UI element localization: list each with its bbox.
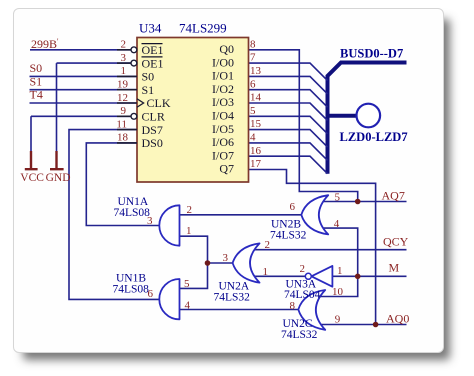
svg-text:I/O0: I/O0	[212, 55, 234, 69]
svg-text:2: 2	[187, 204, 193, 216]
svg-text:8: 8	[250, 38, 256, 50]
or gate UN2C	[298, 290, 325, 330]
svg-text:6: 6	[250, 78, 256, 90]
svg-text:T4: T4	[30, 88, 43, 102]
junction dot UN2A output	[205, 260, 211, 266]
svg-text:15: 15	[250, 118, 262, 130]
svg-text:299B': 299B'	[31, 37, 59, 51]
svg-text:LZD0-LZD7: LZD0-LZD7	[340, 130, 408, 144]
svg-text:I/O7: I/O7	[212, 148, 234, 162]
svg-text:AQ7: AQ7	[382, 188, 405, 202]
junction dot AQ7	[355, 199, 361, 205]
power symbol GND	[50, 151, 64, 169]
wire pin 16 bus entry	[249, 156, 328, 174]
wire pin 4 bus entry	[249, 143, 328, 161]
wire pin 7 bus entry	[249, 63, 328, 81]
svg-text:6: 6	[148, 288, 154, 300]
svg-text:19: 19	[117, 79, 129, 91]
svg-text:S1: S1	[30, 74, 43, 88]
svg-text:4: 4	[250, 132, 256, 144]
svg-text:UN1A: UN1A	[118, 196, 149, 208]
svg-text:AQ0: AQ0	[386, 311, 409, 325]
wire pin 5 bus entry	[249, 116, 328, 134]
svg-text:6: 6	[290, 201, 296, 213]
svg-text:I/O5: I/O5	[212, 122, 234, 136]
junction dot M	[355, 274, 361, 280]
svg-text:S1: S1	[142, 83, 155, 97]
wire Q7 pin 17 to AQ0 junction	[249, 170, 376, 325]
svg-text:I/O4: I/O4	[212, 109, 234, 123]
svg-text:GND: GND	[46, 172, 71, 184]
svg-text:DS7: DS7	[142, 123, 163, 137]
svg-text:I/O3: I/O3	[212, 95, 234, 109]
or gate UN2B	[301, 195, 328, 234]
svg-text:CLK: CLK	[147, 96, 171, 110]
svg-text:4: 4	[185, 299, 191, 311]
svg-text:S0: S0	[142, 70, 155, 84]
svg-text:2: 2	[121, 39, 127, 51]
svg-text:U34: U34	[139, 21, 162, 36]
wire S0 to pin 1	[30, 75, 138, 77]
wire AQ0 to UN2C.9	[319, 324, 407, 326]
svg-text:2: 2	[265, 239, 271, 251]
junction dot AQ0	[373, 322, 379, 328]
wire T4 to pin 12 CLK	[30, 102, 138, 104]
pin 9 stub and bubble	[117, 115, 131, 117]
svg-text:74LS32: 74LS32	[214, 291, 251, 303]
svg-text:3: 3	[147, 215, 153, 227]
svg-text:UN1B: UN1B	[116, 272, 146, 284]
svg-text:5: 5	[250, 105, 256, 117]
wire M to UN3A.1	[332, 275, 406, 277]
inverter UN3A triangle	[311, 266, 332, 287]
svg-text:74LS32: 74LS32	[281, 329, 318, 341]
pin 2 stub and bubble	[117, 49, 131, 51]
chip U34 74LS299 body	[137, 38, 249, 183]
wire DS0 pin 18 to UN1A output	[86, 143, 159, 226]
svg-text:11: 11	[116, 118, 127, 130]
svg-text:74LS32: 74LS32	[270, 229, 307, 241]
svg-text:3: 3	[121, 52, 127, 64]
and gate UN1B	[159, 279, 179, 319]
wire GND riser to pin 3	[57, 63, 131, 152]
svg-text:QCY: QCY	[383, 234, 409, 248]
svg-text:I/O6: I/O6	[212, 135, 234, 149]
wire AQ7 to UN2B.5	[322, 201, 407, 203]
svg-text:12: 12	[117, 92, 128, 104]
wire 299B' to pin 2	[30, 49, 131, 51]
svg-text:I/O1: I/O1	[212, 69, 234, 83]
pin 12 stub and clock mark	[117, 102, 137, 104]
svg-text:74LS299: 74LS299	[179, 21, 227, 36]
svg-text:I/O2: I/O2	[212, 82, 234, 96]
wire UN1A.2 to UN2B.6	[180, 214, 302, 216]
svg-text:OE1: OE1	[142, 56, 164, 70]
svg-text:17: 17	[250, 158, 262, 170]
wire QCY to UN2A.2	[253, 249, 407, 251]
wire Q0 pin 8 to AQ7 junction	[249, 50, 358, 202]
svg-text:CLR: CLR	[142, 110, 165, 124]
svg-text:S0: S0	[30, 61, 43, 75]
wire DS7 pin 11 to UN1B output	[69, 130, 160, 300]
svg-text:1: 1	[337, 265, 343, 277]
wire pin 15 bus entry	[249, 130, 328, 148]
svg-text:1: 1	[186, 225, 192, 237]
svg-text:OE1: OE1	[142, 43, 164, 57]
wire UN3A.2 to UN2A.1	[253, 275, 305, 277]
svg-text:5: 5	[184, 278, 190, 290]
svg-text:2: 2	[300, 263, 306, 275]
bus branch to LZD circle	[328, 114, 358, 118]
svg-text:Q0: Q0	[219, 42, 234, 56]
svg-text:VCC: VCC	[20, 172, 44, 184]
and gate UN1A	[159, 205, 179, 245]
svg-text:1: 1	[263, 266, 269, 278]
svg-text:9: 9	[121, 105, 127, 117]
pin 1 stub	[117, 75, 137, 77]
wire S1 to pin 19	[30, 89, 138, 91]
svg-text:7: 7	[250, 52, 256, 64]
pin 19 stub	[117, 89, 137, 91]
svg-text:8: 8	[290, 300, 296, 312]
svg-text:18: 18	[117, 132, 129, 144]
svg-text:10: 10	[332, 286, 344, 298]
wire UN2B.4 to M junction and UN2C.10	[319, 228, 358, 296]
svg-text:Q7: Q7	[219, 162, 234, 176]
svg-text:9: 9	[335, 314, 341, 326]
wire pin 6 bus entry	[249, 90, 328, 108]
sheet connector circle LZD0-LZD7	[357, 104, 381, 128]
svg-text:74LS08: 74LS08	[113, 284, 150, 296]
pin 11 stub	[117, 129, 137, 131]
bus BUSD0--D7	[328, 63, 407, 174]
svg-text:DS0: DS0	[142, 136, 163, 150]
svg-text:14: 14	[250, 92, 262, 104]
wire VCC riser to pin 9 CLR	[31, 116, 131, 152]
wire pin 14 bus entry	[249, 103, 328, 121]
svg-text:BUSD0--D7: BUSD0--D7	[340, 47, 403, 61]
pin 18 stub	[117, 142, 137, 144]
svg-text:13: 13	[250, 65, 262, 77]
wire UN1A.1 / UN2A.3 / UN1B.5 junction	[180, 236, 233, 288]
power symbol VCC	[25, 151, 38, 169]
inverter UN3A bubble	[305, 273, 311, 279]
svg-text:16: 16	[250, 145, 262, 157]
svg-text:4: 4	[334, 218, 340, 230]
wire UN1B.4 to UN2C.8	[180, 309, 299, 311]
svg-text:3: 3	[223, 252, 229, 264]
svg-text:74LS08: 74LS08	[114, 207, 151, 219]
or gate UN2A	[233, 243, 260, 282]
pin 3 stub and bubble	[117, 62, 131, 64]
svg-text:M: M	[389, 261, 400, 275]
svg-text:5: 5	[335, 191, 341, 203]
wire pin 13 bus entry	[249, 76, 328, 94]
svg-text:1: 1	[121, 65, 127, 77]
